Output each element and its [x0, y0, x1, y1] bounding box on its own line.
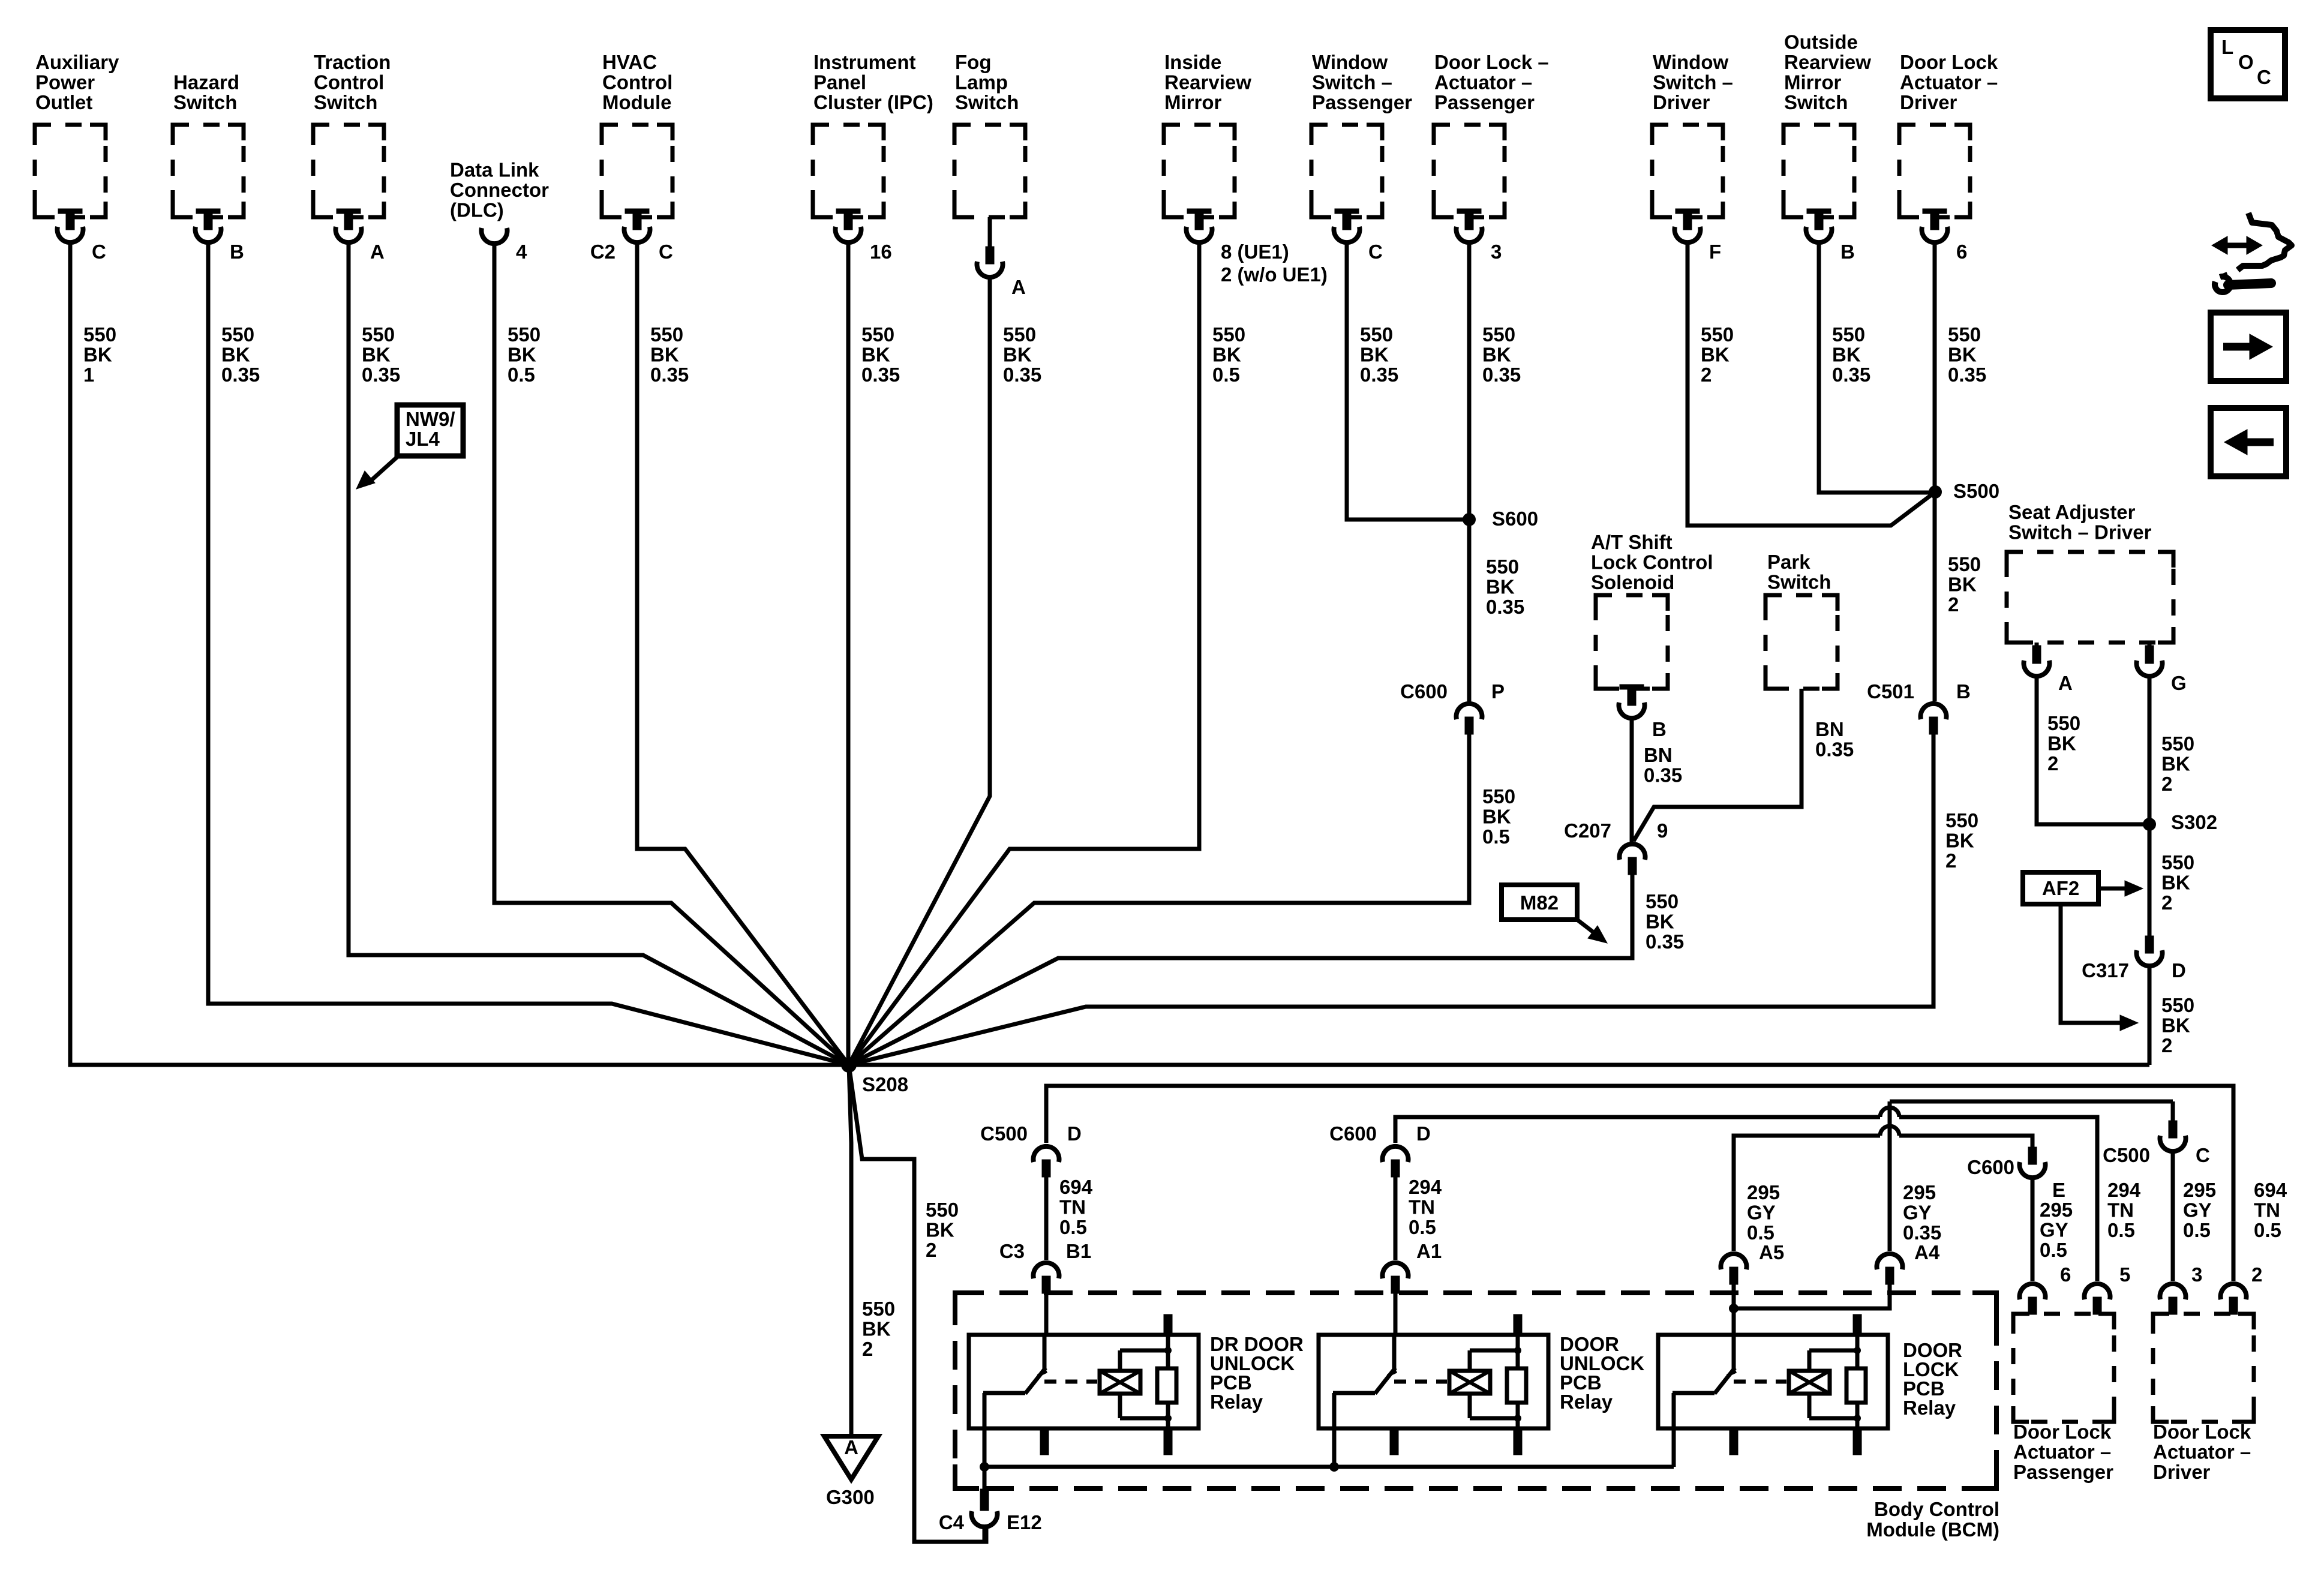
wire Door Lock Actuator Driver through S500 to C501 B [1933, 244, 1937, 701]
svg-text:(DLC): (DLC) [450, 199, 504, 221]
svg-text:0.35: 0.35 [1903, 1221, 1941, 1244]
svg-text:BN: BN [1815, 718, 1844, 740]
svg-text:BK: BK [926, 1219, 954, 1241]
callout AF2 arrow right [2098, 887, 2127, 891]
component box Body Control Module BCM [955, 1293, 1996, 1488]
svg-text:C: C [1368, 241, 1383, 263]
svg-text:6: 6 [1956, 241, 1967, 263]
svg-text:0.35: 0.35 [861, 364, 900, 386]
svg-text:Switch: Switch [1784, 91, 1848, 113]
connector C500 C (pin into cup) [2160, 1121, 2186, 1151]
wire A4 to junction [1734, 1283, 1890, 1308]
callout AF2 arrow lower [2061, 904, 2121, 1023]
wire S208 to G300 ground [849, 1065, 851, 1436]
svg-text:Door Lock: Door Lock [1900, 51, 1998, 73]
legend right arrow box [2211, 313, 2286, 381]
svg-text:BN: BN [1644, 744, 1673, 766]
svg-text:HVAC: HVAC [602, 51, 657, 73]
svg-text:BK: BK [362, 344, 391, 366]
connector pin 16 of Instrument [836, 209, 861, 242]
svg-text:Door Lock: Door Lock [2153, 1421, 2251, 1443]
wire Inside Rearview Mirror to S208 [849, 244, 1199, 1065]
svg-text:BK: BK [650, 344, 679, 366]
svg-text:1: 1 [83, 364, 94, 386]
wire relay3 common to bus [1672, 1428, 1676, 1467]
connector C600 P (inline) [1457, 704, 1482, 734]
svg-text:550: 550 [221, 323, 254, 346]
svg-text:5: 5 [2119, 1263, 2130, 1286]
svg-text:Switch: Switch [1767, 571, 1831, 593]
svg-text:550: 550 [1212, 323, 1245, 346]
wire C500 C to pin 3 connector [2171, 1152, 2175, 1281]
svg-text:BK: BK [1646, 911, 1674, 933]
wire S208 to BCM E12 [849, 1065, 986, 1542]
svg-text:E12: E12 [1007, 1511, 1042, 1533]
svg-text:0.5: 0.5 [1212, 364, 1240, 386]
component box Door Lock Actuator - Driver [2153, 1314, 2254, 1422]
svg-text:A4: A4 [1914, 1241, 1940, 1263]
connector pin 6 (inline dome) [2020, 1284, 2046, 1314]
svg-text:NW9/: NW9/ [406, 408, 455, 430]
svg-text:Driver: Driver [1653, 91, 1710, 113]
svg-text:BK: BK [861, 344, 890, 366]
svg-text:550: 550 [926, 1199, 959, 1221]
svg-text:0.5: 0.5 [2040, 1239, 2067, 1261]
svg-text:550: 550 [1646, 890, 1679, 912]
wire A5 feeder to C600 E and pin 6 [1734, 1136, 1880, 1251]
svg-text:Switch: Switch [955, 91, 1019, 113]
svg-text:BK: BK [221, 344, 250, 366]
svg-text:Switch – Driver: Switch – Driver [2008, 521, 2152, 544]
svg-text:BK: BK [1482, 806, 1511, 828]
svg-text:0.5: 0.5 [1059, 1216, 1087, 1238]
svg-text:9: 9 [1657, 819, 1668, 842]
svg-text:C207: C207 [1564, 819, 1611, 842]
svg-text:295: 295 [2040, 1199, 2073, 1221]
svg-text:B: B [1652, 718, 1667, 740]
svg-text:A: A [2058, 672, 2073, 694]
component box Window Switch – Passenger [1311, 125, 1382, 217]
svg-text:Module: Module [602, 91, 671, 113]
connector pin A of Fog [988, 217, 992, 248]
svg-text:A/T Shift: A/T Shift [1591, 531, 1673, 553]
svg-text:550: 550 [2161, 851, 2194, 873]
svg-text:Panel: Panel [813, 71, 866, 94]
svg-text:Auxiliary: Auxiliary [35, 51, 119, 73]
svg-text:0.35: 0.35 [1832, 364, 1870, 386]
svg-text:550: 550 [1832, 323, 1865, 346]
junction dot A5/A4 [1729, 1304, 1739, 1313]
svg-text:Window: Window [1653, 51, 1728, 73]
wire C317 to main bus corner [2148, 966, 2152, 1065]
connector pin F of Window [1675, 209, 1701, 242]
svg-text:295: 295 [1747, 1181, 1780, 1203]
svg-text:Relay: Relay [1903, 1397, 1956, 1419]
svg-text:550: 550 [362, 323, 395, 346]
svg-text:Hazard: Hazard [173, 71, 239, 94]
svg-text:Rearview: Rearview [1164, 71, 1251, 94]
wire relay2 common to bus [1332, 1428, 1337, 1467]
svg-text:0.35: 0.35 [362, 364, 400, 386]
svg-text:2: 2 [2047, 752, 2058, 775]
svg-text:0.5: 0.5 [2254, 1219, 2281, 1241]
svg-text:2: 2 [862, 1338, 873, 1360]
wire bus to E12 pin [983, 1467, 987, 1489]
svg-text:2 (w/o UE1): 2 (w/o UE1) [1221, 263, 1328, 286]
svg-text:Connector: Connector [450, 179, 549, 201]
svg-text:295: 295 [2183, 1179, 2216, 1201]
svg-text:Passenger: Passenger [2013, 1461, 2113, 1483]
component box Park Switch [1765, 595, 1837, 689]
svg-text:GY: GY [1903, 1202, 1932, 1224]
svg-text:Inside: Inside [1164, 51, 1221, 73]
svg-text:BK: BK [1482, 344, 1511, 366]
connector A5 (inline) [1721, 1254, 1747, 1284]
svg-text:2: 2 [1701, 364, 1712, 386]
svg-text:D: D [1416, 1122, 1431, 1145]
component box Auxiliary Power Outlet [35, 125, 106, 217]
callout M82 box [1502, 885, 1577, 920]
legend double arrow [2220, 243, 2254, 248]
svg-text:Power: Power [35, 71, 95, 94]
svg-text:AF2: AF2 [2042, 877, 2079, 899]
svg-text:0.35: 0.35 [1486, 596, 1524, 618]
svg-text:Mirror: Mirror [1164, 91, 1222, 113]
svg-text:Relay: Relay [1210, 1391, 1263, 1413]
svg-text:BK: BK [2161, 753, 2190, 775]
svg-text:16: 16 [870, 241, 892, 263]
svg-text:2: 2 [2161, 773, 2172, 795]
svg-text:550: 550 [1701, 323, 1734, 346]
svg-text:TN: TN [1059, 1196, 1086, 1218]
svg-text:C: C [2257, 66, 2271, 88]
connector pin 2 (inline dome) [2221, 1284, 2247, 1314]
svg-text:0.5: 0.5 [508, 364, 535, 386]
component box Inside Rearview Mirror [1164, 125, 1235, 217]
svg-text:C317: C317 [2082, 959, 2129, 981]
svg-text:Actuator –: Actuator – [1434, 71, 1532, 94]
svg-text:550: 550 [2047, 712, 2080, 734]
svg-text:550: 550 [861, 323, 894, 346]
svg-text:694: 694 [1059, 1176, 1093, 1198]
svg-text:BK: BK [1948, 574, 1977, 596]
splice S302 [2143, 818, 2156, 831]
svg-text:Passenger: Passenger [1434, 91, 1535, 113]
wire Door Lock Actuator Passenger through S600 and C600 P to S208 [1467, 244, 1472, 701]
svg-text:Actuator –: Actuator – [2013, 1441, 2111, 1463]
svg-text:B1: B1 [1066, 1240, 1091, 1262]
svg-text:0.35: 0.35 [221, 364, 260, 386]
svg-text:550: 550 [2161, 994, 2194, 1016]
svg-text:TN: TN [2107, 1199, 2134, 1221]
svg-text:3: 3 [2191, 1263, 2202, 1286]
svg-text:Outlet: Outlet [35, 91, 92, 113]
svg-text:Park: Park [1767, 551, 1810, 573]
svg-text:550: 550 [508, 323, 541, 346]
callout M82 arrow [1577, 920, 1593, 932]
svg-text:0.35: 0.35 [650, 364, 689, 386]
svg-text:Outside: Outside [1784, 31, 1858, 53]
svg-text:L: L [2221, 36, 2233, 58]
svg-text:Control: Control [314, 71, 384, 94]
svg-text:TN: TN [2254, 1199, 2280, 1221]
component box Fog Lamp Switch [954, 125, 1025, 217]
svg-text:C4: C4 [939, 1511, 965, 1533]
wire relay1 common to ground bus [983, 1428, 987, 1467]
svg-text:BK: BK [1003, 344, 1032, 366]
connector C4 E12 (pin into cup) [980, 1489, 989, 1511]
svg-text:294: 294 [2107, 1179, 2141, 1201]
svg-text:550: 550 [83, 323, 116, 346]
svg-text:C500: C500 [980, 1122, 1028, 1145]
connector pin C of Window [1334, 209, 1360, 242]
wire junction to relay 3 [1732, 1308, 1736, 1337]
svg-text:550: 550 [1482, 785, 1515, 807]
svg-text:0.5: 0.5 [1409, 1216, 1436, 1238]
svg-text:550: 550 [1482, 323, 1515, 346]
svg-text:Passenger: Passenger [1312, 91, 1412, 113]
svg-text:Rearview: Rearview [1784, 51, 1871, 73]
svg-text:Driver: Driver [2153, 1461, 2211, 1483]
svg-text:S208: S208 [862, 1073, 908, 1095]
connector pin C of Auxiliary [58, 209, 83, 242]
wire C3 B1 into relay 1 [1044, 1292, 1049, 1337]
svg-text:2: 2 [1948, 593, 1959, 616]
svg-text:B: B [1956, 680, 1971, 703]
svg-text:2: 2 [1945, 849, 1956, 872]
svg-text:Actuator –: Actuator – [2153, 1441, 2251, 1463]
legend hand with wrench icon [2238, 213, 2292, 270]
svg-text:A: A [370, 241, 385, 263]
svg-text:Switch: Switch [314, 91, 377, 113]
component box HVAC Control Module [602, 125, 672, 217]
svg-text:BK: BK [1945, 830, 1974, 852]
svg-text:Switch –: Switch – [1312, 71, 1392, 94]
svg-text:Cluster (IPC): Cluster (IPC) [813, 91, 933, 113]
wire Auxiliary Power Outlet to S208 (main ground bus) [70, 244, 2149, 1065]
svg-text:BK: BK [1360, 344, 1389, 366]
svg-text:6: 6 [2060, 1263, 2071, 1286]
connector C317 D (inline) [2145, 936, 2154, 953]
svg-text:550: 550 [2161, 733, 2194, 755]
component box Window Switch – Driver [1652, 125, 1723, 217]
junction dot relay1 bus [980, 1462, 989, 1472]
connector C501 B (inline) [1921, 704, 1947, 734]
svg-text:Switch: Switch [173, 91, 237, 113]
svg-text:2: 2 [2161, 1034, 2172, 1056]
callout NW9/JL4 box [397, 405, 463, 456]
svg-text:550: 550 [862, 1298, 895, 1320]
wire Window Switch Passenger to S600 [1347, 244, 1469, 520]
svg-text:G300: G300 [826, 1486, 875, 1508]
svg-text:C: C [659, 241, 673, 263]
svg-text:D: D [1067, 1122, 1082, 1145]
connector pin B of A/T Shift Lock Control Solenoid [1619, 685, 1645, 718]
wire C500 D to C3 B1 [1044, 1176, 1049, 1260]
connector pin G of Seat Adjuster Switch [2148, 643, 2152, 648]
component box Outside Rearview Mirror Switch [1783, 125, 1854, 217]
svg-text:C3: C3 [999, 1240, 1025, 1262]
svg-text:Driver: Driver [1900, 91, 1957, 113]
legend wrench [2228, 283, 2271, 285]
connector pin 8 (UE1) of Inside [1187, 209, 1212, 242]
svg-text:BK: BK [2161, 872, 2190, 894]
svg-text:3: 3 [1491, 241, 1502, 263]
svg-text:A: A [844, 1436, 858, 1458]
svg-text:550: 550 [1360, 323, 1393, 346]
svg-text:295: 295 [1903, 1181, 1936, 1203]
svg-text:G: G [2171, 672, 2187, 694]
svg-text:2: 2 [926, 1239, 936, 1261]
wire C500 C feeder line to pin 3 [1890, 1100, 2173, 1104]
connector pin A of Seat Adjuster Switch [2035, 643, 2039, 648]
svg-text:B: B [1840, 241, 1855, 263]
svg-text:0.35: 0.35 [1646, 930, 1684, 953]
svg-text:B: B [230, 241, 244, 263]
svg-text:0.35: 0.35 [1003, 364, 1041, 386]
svg-text:0.5: 0.5 [2183, 1219, 2211, 1241]
svg-text:Body Control: Body Control [1874, 1498, 1999, 1520]
component box Instrument Panel Cluster (IPC) [813, 125, 884, 217]
svg-text:550: 550 [1948, 553, 1981, 575]
svg-text:550: 550 [1948, 323, 1981, 346]
connector pin C of HVAC [624, 209, 650, 242]
svg-text:D: D [2172, 959, 2186, 981]
wire C500 D feeder to Door Lock Actuator Driver pin 2 [1046, 1086, 2233, 1281]
svg-text:2: 2 [2251, 1263, 2262, 1286]
svg-text:S600: S600 [1492, 508, 1538, 530]
component box Door Lock Actuator - Passenger [2013, 1314, 2114, 1422]
svg-text:0.35: 0.35 [1482, 364, 1521, 386]
wire C600 E to pin 6 connector [2031, 1179, 2035, 1281]
svg-text:C: C [2196, 1144, 2210, 1166]
svg-text:BK: BK [1948, 344, 1977, 366]
wire S302 to C317 [2148, 824, 2152, 938]
ground bus inside BCM [984, 1465, 1674, 1469]
svg-text:Seat Adjuster: Seat Adjuster [2008, 501, 2136, 523]
wire Hazard Switch to S208 [208, 244, 849, 1065]
wire Window Switch Driver to S500 [1688, 244, 1935, 526]
svg-text:C501: C501 [1867, 680, 1914, 703]
splice S208 [841, 1057, 857, 1073]
svg-text:A1: A1 [1416, 1240, 1442, 1262]
callout NW9/JL4 arrow [368, 456, 398, 483]
wire DLC to S208 [494, 244, 849, 1065]
svg-text:4: 4 [516, 241, 527, 263]
svg-text:BK: BK [1832, 344, 1861, 366]
connector C600 D (inline) [1383, 1146, 1409, 1177]
wire A4 feeder riser from C500 C line [1888, 1101, 1892, 1251]
relay DOOR LOCK PCB Relay [1658, 1314, 1888, 1455]
svg-text:Switch –: Switch – [1653, 71, 1733, 94]
svg-text:TN: TN [1409, 1196, 1435, 1218]
svg-text:550: 550 [1003, 323, 1036, 346]
svg-text:Lamp: Lamp [955, 71, 1008, 94]
svg-text:Data Link: Data Link [450, 159, 539, 181]
svg-text:C: C [92, 241, 106, 263]
connector C500 D (inline) [1034, 1146, 1059, 1177]
component box Door Lock Actuator – Driver [1899, 125, 1970, 217]
svg-text:E: E [2052, 1179, 2065, 1201]
wire IPC to S208 [846, 244, 851, 1065]
svg-text:A5: A5 [1759, 1241, 1784, 1263]
svg-text:BK: BK [83, 344, 112, 366]
legend left arrow box [2211, 408, 2286, 476]
svg-text:Actuator –: Actuator – [1900, 71, 1998, 94]
svg-text:Control: Control [602, 71, 672, 94]
svg-text:Solenoid: Solenoid [1591, 571, 1674, 593]
svg-text:Lock Control: Lock Control [1591, 551, 1713, 574]
component box Traction Control Switch [313, 125, 384, 217]
svg-text:Fog: Fog [955, 51, 991, 73]
component box Door Lock – Actuator – Passenger [1434, 125, 1505, 217]
svg-text:0.35: 0.35 [1815, 739, 1854, 761]
wire C207 to S208 [849, 872, 1632, 1065]
svg-text:Relay: Relay [1560, 1391, 1613, 1413]
splice S600 [1463, 513, 1476, 526]
svg-text:550: 550 [650, 323, 683, 346]
wire C600 D feeder to Door Lock Actuator Passenger pin 5 [1395, 1117, 1880, 1143]
svg-text:S302: S302 [2171, 811, 2217, 833]
svg-text:294: 294 [1409, 1176, 1442, 1198]
svg-text:Module (BCM): Module (BCM) [1866, 1518, 1999, 1541]
wire HVAC Control Module to S208 [637, 244, 849, 1065]
svg-text:Traction: Traction [314, 51, 391, 73]
svg-text:550: 550 [1945, 809, 1978, 831]
connector A4 (inline) [1877, 1254, 1903, 1284]
svg-text:S500: S500 [1953, 480, 1999, 502]
connector pin B of Hazard [196, 209, 221, 242]
svg-text:0.5: 0.5 [1482, 825, 1510, 848]
svg-text:BK: BK [1486, 576, 1515, 598]
connector pin B of Outside [1806, 209, 1832, 242]
wire Seat Adjuster G to S302 [2148, 677, 2152, 824]
legend LOC box [2211, 30, 2285, 98]
connector pin A of Traction [336, 209, 362, 242]
component box Hazard Switch [173, 125, 244, 217]
wire hop over A4 riser (upper) [1880, 1107, 1899, 1117]
svg-text:JL4: JL4 [406, 428, 440, 450]
svg-text:0.35: 0.35 [1360, 364, 1398, 386]
svg-text:BK: BK [508, 344, 536, 366]
svg-text:C600: C600 [1329, 1122, 1377, 1145]
svg-text:P: P [1491, 680, 1505, 703]
svg-text:Door Lock: Door Lock [2013, 1421, 2112, 1443]
svg-text:BK: BK [862, 1318, 891, 1340]
connector pin 6 of Door Lock [1922, 209, 1948, 242]
svg-text:GY: GY [2040, 1219, 2068, 1241]
svg-text:GY: GY [1747, 1202, 1776, 1224]
component box A/T Shift Lock Control Solenoid [1596, 595, 1668, 689]
splice S500 [1929, 485, 1942, 499]
wire A5 into BCM junction [1732, 1283, 1736, 1308]
svg-text:BK: BK [1212, 344, 1241, 366]
svg-text:8 (UE1): 8 (UE1) [1221, 241, 1289, 263]
wire below E12 [983, 1527, 987, 1542]
wire Outside Rearview Mirror Switch to S500 [1819, 244, 1935, 493]
svg-text:BK: BK [2047, 733, 2076, 755]
wire continues to pin 5 riser [1899, 1117, 2097, 1281]
svg-text:C600: C600 [1967, 1156, 2014, 1178]
svg-text:2: 2 [2161, 891, 2172, 914]
wire hop over A4 riser (lower) [1880, 1126, 1899, 1136]
wire Seat Adjuster A to S302 [2037, 677, 2149, 824]
wire Fog Lamp Switch to S208 [849, 277, 990, 1065]
wire Park Switch to C207 [1634, 689, 1801, 841]
wire C501 B to S208 [849, 732, 1933, 1065]
svg-text:0.5: 0.5 [2107, 1219, 2135, 1241]
wire continues to C600 E [1899, 1136, 2032, 1147]
